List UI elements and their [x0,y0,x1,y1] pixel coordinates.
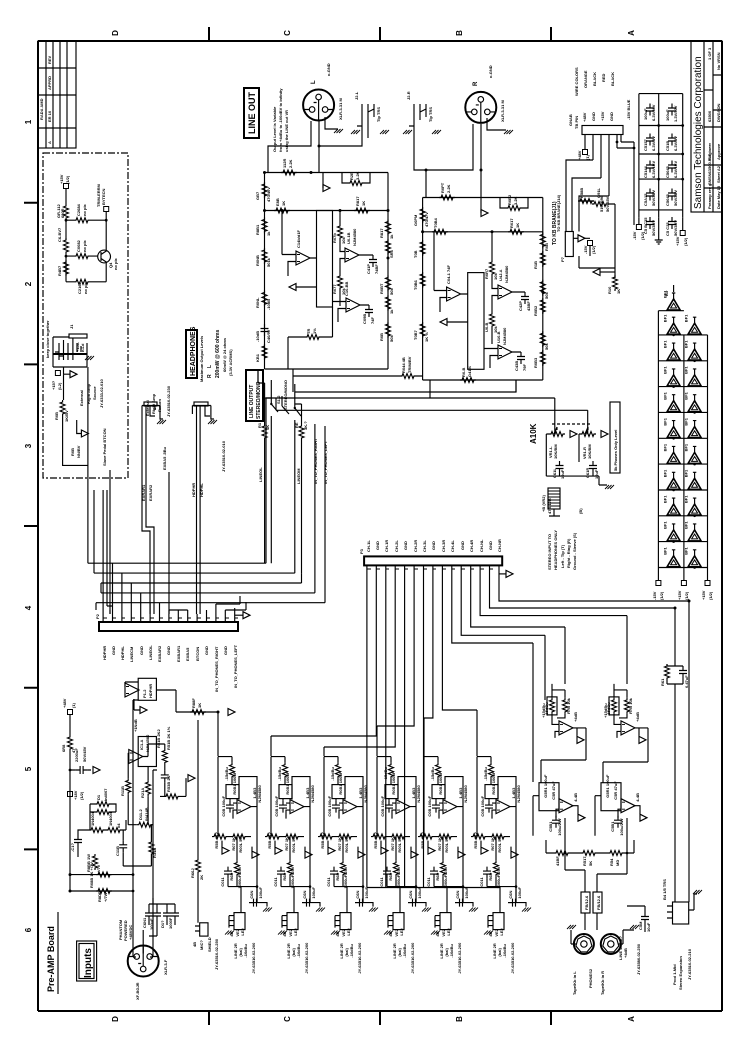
svg-text:2.2K: 2.2K [288,159,293,168]
svg-text:Preamp rev g: Preamp rev g [707,183,712,209]
svg-text:R2B: R2B [349,172,354,180]
svg-text:no pix: no pix [83,281,88,294]
svg-text:6.3V/BV: 6.3V/BV [651,136,656,151]
array bottom terminals [656,581,661,586]
svg-text:R0BT: R0BT [379,283,384,294]
svg-text:T0B: T0B [413,250,418,258]
svg-text:in4007: in4007 [103,788,108,801]
+15V terminal [64,184,69,189]
resistor R0PT 2.2K [439,195,455,200]
svg-text:EXBAR2: EXBAR2 [157,645,162,662]
svg-text:C14b/d1F: C14b/d1F [296,229,301,248]
svg-text:R0-B: R0-B [461,368,466,377]
resistor C2162 [74,279,90,284]
wire [66,254,106,282]
diode D1 in4007 [95,802,111,807]
svg-text:FB/12.6: FB/12.6 [584,895,589,910]
svg-text:-15V BLUE: -15V BLUE [626,99,631,120]
cap C61R [589,461,597,473]
svg-text:R0R7: R0R7 [484,268,489,279]
cap 2200uF [76,766,88,774]
svg-text:no pix: no pix [82,203,87,216]
svg-text:47B/12B: 47B/12B [547,498,552,514]
buffer D9 [684,391,702,412]
resistor R21A [146,780,151,796]
bus to AKM block [292,386,294,392]
jack R [409,104,426,126]
svg-text:+18V: +18V [73,790,78,800]
svg-text:680R: 680R [60,208,65,218]
verticals into P2 from above [88,490,246,614]
svg-text:NN/BV: NN/BV [76,445,81,458]
XLR input connector [128,946,159,977]
svg-text:-15V: -15V [632,231,637,240]
svg-text:C: C [283,1016,292,1022]
cap C1 [74,835,82,847]
XLR wires up [133,700,157,957]
svg-text:R08B 1K +/7V: R08B 1K +/7V [89,862,94,888]
buffer D2 [663,314,681,335]
channel strip CH4 [371,757,431,974]
svg-text:R0B: R0B [544,243,549,251]
svg-text:NJM4580: NJM4580 [352,228,357,246]
resistor T0B4 on rail [432,229,448,234]
array top lead [673,285,675,292]
op-amp U3B [498,285,512,299]
array node dots [672,334,696,569]
svg-text:EXBAR1: EXBAR1 [176,645,181,662]
svg-text:1K/BV: 1K/BV [64,410,69,422]
svg-text:R0PT: R0PT [440,182,445,193]
svg-text:+48V: +48V [582,112,587,122]
svg-text:T0B7: T0B7 [413,329,418,340]
inner feedback rect R [468,273,484,370]
channel strip CH2 [265,757,325,974]
svg-text:-10dB: -10dB [255,331,260,342]
svg-text:D1: D1 [96,794,101,800]
svg-text:+48V: +48V [577,150,582,160]
svg-text:+15V: +15V [677,590,682,600]
svg-text:4B: 4B [192,942,197,947]
svg-text:GND: GND [460,541,465,550]
diode arrow inside [578,235,585,242]
resistor 6R8 47 [68,735,73,751]
svg-text:50V/3BV: 50V/3BV [673,190,678,206]
caps near XLR [145,909,153,921]
wires out of block bottom [258,369,293,386]
svg-text:63500: 63500 [707,110,712,122]
bus wire y 874.6 [70,791,133,875]
cap C43B 79F [517,352,525,364]
resistor col left R8B1 [262,217,267,233]
resistor below-left KB1 [262,344,267,360]
svg-text:STEREO INPUT TO: STEREO INPUT TO [547,534,552,570]
staircase to right blocks [499,573,689,902]
svg-text:Source: Source [92,386,97,400]
svg-text:1000F: 1000F [168,917,173,929]
svg-text:LINE OUTPUT: LINE OUTPUT [249,385,255,418]
svg-text:C51B: C51B [665,141,670,151]
svg-text:+15V: +15V [600,111,605,121]
5k Phones Only Level boxed [610,402,620,473]
svg-text:J2-L: J2-L [354,91,359,100]
tape inter-stage wires [541,728,648,830]
resistor RE 3K [299,424,304,440]
svg-text:100uF: 100uF [643,108,648,120]
svg-text:10uF: 10uF [560,469,565,479]
svg-text:PHONES2: PHONES2 [588,968,593,988]
svg-text:XLR-3-F: XLR-3-F [163,959,168,975]
svg-text:C10-BB: C10-BB [344,281,349,296]
channel strip CH1 [212,757,272,974]
svg-text:1K: 1K [515,223,520,228]
svg-text:ORANGE: ORANGE [583,70,588,88]
arrow down bottom [593,269,600,276]
svg-text:G41%: G41% [467,365,472,377]
svg-text:+/7W: +/7W [103,892,108,902]
dashed enclosure [43,153,128,478]
svg-text:50k: 50k [389,335,394,342]
svg-text:R: R [207,374,213,378]
inner feedback rect [317,211,333,308]
svg-text:TR: TR [306,329,311,334]
svg-text:+48VDC: +48VDC [128,925,133,940]
svg-text:BLACK: BLACK [592,72,597,86]
cap C52 [646,134,654,146]
svg-text:RE: RE [294,422,299,428]
svg-text:C6-BV7: C6-BV7 [57,227,62,242]
HDPH wire pair [197,419,201,614]
tape lower stage R [595,774,647,836]
svg-text:Stereo Expansion: Stereo Expansion [678,956,683,990]
wires down from switch [265,424,325,603]
svg-text:BLACK: BLACK [610,72,615,86]
svg-text:R: R [473,81,479,86]
svg-text:T0B4: T0B4 [433,217,438,228]
junction dots top blocks [69,145,691,893]
svg-text:+15V: +15V [701,590,706,600]
svg-text:R044 4B: R044 4B [401,357,406,373]
svg-text:XLR-3-31 M: XLR-3-31 M [500,100,505,122]
svg-text:1 OF 3: 1 OF 3 [707,47,712,60]
svg-text:G0PM: G0PM [413,214,418,226]
svg-text:112R: 112R [282,159,287,168]
buffer D3 [684,314,702,335]
svg-text:LINECM: LINECM [129,646,134,662]
svg-text:10uF: 10uF [646,922,651,932]
svg-text:keep close together: keep close together [45,320,50,358]
svg-text:P7: P7 [560,256,565,262]
wire [66,189,106,250]
svg-text:74BF: 74BF [374,264,379,274]
title block [691,41,722,212]
bottom rail extension [639,218,683,238]
svg-text:(1/2): (1/2) [65,175,70,184]
svg-text:ER 10: ER 10 [47,110,52,122]
svg-text:R0NL: R0NL [255,297,260,308]
svg-text:2K: 2K [199,875,204,880]
svg-text:SMSN63500.PLT: SMSN63500.PLT [707,153,712,185]
ground at XLR R [504,130,513,134]
svg-text:B1: B1 [664,290,669,296]
resistors right rail column [386,220,391,236]
cap C11B [119,840,127,852]
svg-text:(L2): (L2) [57,382,62,390]
svg-text:1K: 1K [281,201,286,206]
svg-text:C5A15: C5A15 [643,193,648,206]
svg-text:470/40V: 470/40V [266,187,271,202]
svg-text:Ground - Sleeve (S): Ground - Sleeve (S) [572,532,577,570]
headphone drive op-amp block P1-2 [138,678,156,700]
svg-text:SR4: SR4 [389,249,394,258]
svg-text:D: D [111,30,120,36]
svg-text:T0B6: T0B6 [413,279,418,290]
svg-text:R817: R817 [355,196,360,206]
svg-text:1K: 1K [616,289,621,294]
svg-text:+15?: +15? [51,380,56,390]
svg-text:HDPHL: HDPHL [199,483,204,497]
resistor 680R [64,204,69,220]
svg-text:1k: 1k [389,234,394,239]
svg-text:-10dB: -10dB [266,299,271,310]
svg-text:43BF: 43BF [526,301,531,311]
arrow mid [289,284,296,291]
svg-text:(1/2): (1/2) [659,591,664,600]
svg-text:GND: GND [204,646,209,655]
svg-text:+B (VR2): +B (VR2) [541,495,546,512]
arrow mid R [440,319,447,326]
P3 exit arrow [506,570,513,577]
svg-text:CH-NR: CH-NR [497,539,502,552]
svg-text:WIRE COLORS: WIRE COLORS [574,67,579,96]
svg-text:R07b: R07b [332,233,337,243]
AKM ground wiring [546,473,607,485]
buffer D8 [663,391,681,412]
cap left rail [261,324,269,336]
main input op-amp IC1-A [138,737,156,767]
svg-text:IN_TO_PHONES_RIGHT: IN_TO_PHONES_RIGHT [313,438,318,484]
wire XLR R to block [414,124,481,198]
cap C51 [161,770,169,782]
buffer D7 [684,366,702,387]
XLR L connector [303,90,334,121]
svg-text:C5045: C5045 [665,165,670,178]
svg-text:x4: x4 [116,823,121,828]
svg-text:TO KB BRANE(J14): TO KB BRANE(J14) [556,194,561,232]
svg-text:TRIM/BV: TRIM/BV [407,356,412,373]
wires input stage [123,753,153,866]
svg-text:L: L [207,365,213,368]
HDPH jack [192,406,211,420]
svg-text:o-GND: o-GND [488,65,493,78]
svg-text:50k: 50k [544,292,549,299]
svg-text:U10-B: U10-B [496,331,501,343]
resistor GB7 470/40V [262,182,267,198]
ground bus verticals [367,573,424,888]
svg-text:R4B7: R4B7 [57,265,62,276]
svg-text:CH-3R: CH-3R [441,540,446,552]
svg-text:JY-63510-02-010: JY-63510-02-010 [221,440,226,472]
svg-text:R53B 2K: R53B 2K [166,775,171,792]
svg-text:FB/12.6: FB/12.6 [596,895,601,910]
resistor C2684 [74,218,90,223]
svg-text:R61: R61 [660,678,665,686]
svg-text:R88F: R88F [191,698,196,708]
svg-text:JY-6333-02-010: JY-6333-02-010 [99,379,104,408]
svg-text:CH-NL: CH-NL [479,539,484,552]
channel strip CH6 [471,757,531,974]
svg-text:(1): (1) [585,154,590,160]
wires of KB board block [579,201,615,278]
svg-text:BYTECN: BYTECN [101,188,106,205]
svg-text:50V/3BV: 50V/3BV [651,220,656,236]
op-amp U2B [345,248,359,262]
svg-text:HDPHR: HDPHR [148,684,153,698]
op-amp U2A [296,251,310,265]
resistor R0B2 3.2K [506,206,522,211]
resistor 112R 2.2K [281,170,297,175]
svg-text:C2684: C2684 [76,203,81,216]
bank rails [639,94,683,218]
wires descending from jack area [315,424,325,430]
svg-text:R10: R10 [607,286,612,294]
svg-text:APPRD: APPRD [47,76,52,90]
buffer D21 [684,546,702,567]
buffer D13 [684,443,702,464]
svg-text:L: L [311,80,317,84]
+15V terminal [680,231,685,236]
cap C57 [668,189,676,201]
cap C61L [556,461,564,473]
diode D11-2 [137,822,153,827]
P3 body [364,556,502,565]
svg-text:HEADPHONES: HEADPHONES [190,326,197,376]
svg-text:6.3V/1BV: 6.3V/1BV [651,161,656,178]
svg-text:R0B: R0B [70,448,75,456]
svg-text:1K %: 1K % [424,332,429,342]
svg-text:2.2K: 2.2K [446,184,451,193]
resistor left rail R0NB [262,248,267,264]
svg-text:R817: R817 [379,228,384,238]
svg-text:no pix: no pix [82,239,87,252]
svg-text:NJM4580: NJM4580 [502,327,507,345]
transistor Q4 [98,250,111,263]
svg-text:D: D [111,1016,120,1022]
svg-text:+15V: +15V [675,236,680,246]
svg-text:P1-2: P1-2 [142,689,147,698]
svg-text:(1/2): (1/2) [79,791,84,800]
op-amp U3A [447,287,461,301]
svg-text:RADA AMD: RADA AMD [39,98,44,120]
jack L [357,104,374,126]
svg-text:LINEOL: LINEOL [258,467,263,482]
strip feeds from P3 [271,573,477,747]
+18V terminal [69,770,71,791]
svg-text:A: A [627,30,636,36]
svg-text:R017: R017 [509,218,514,228]
buffer D4 [663,340,681,361]
resistor lower left [64,260,69,276]
channel strip CH3 [318,757,378,974]
pot feed wires [546,398,587,476]
arrow on rail [323,185,330,192]
svg-text:MD: MD [615,860,620,866]
svg-text:CH-2L: CH-2L [394,540,399,552]
svg-text:EXRAR2: EXRAR2 [148,484,153,501]
svg-text:50V/3BV: 50V/3BV [673,220,678,236]
svg-text:E8B: E8B [275,198,280,206]
wires out of R block bottom [430,380,516,398]
cap/res top [665,664,670,680]
svg-text:No VRSN: No VRSN [716,52,721,70]
svg-text:Tape/Kb in L: Tape/Kb in L [572,971,577,995]
svg-text:LINE OUT: LINE OUT [247,91,257,134]
svg-text:R0B2: R0B2 [533,305,538,316]
svg-text:10K/BM: 10K/BM [553,444,558,459]
svg-text:IN_TO_PHONES_LEFT: IN_TO_PHONES_LEFT [233,644,238,688]
-15V terminal [636,225,641,230]
cap C50 [646,104,654,116]
resistor R8BB 1/2W [93,854,98,870]
resistor R07b 10k [338,224,343,240]
resistor R0R8 10k [490,312,495,328]
svg-text:A10K: A10K [529,423,538,444]
op-amp U2C [346,298,360,312]
node dots on rails [657,124,684,180]
buffer D10 [663,417,681,438]
P2 feed staircase from left [88,560,266,614]
resistor R58B [578,199,594,204]
svg-text:DWGSON: DWGSON [716,103,721,122]
resistor R1 1K [262,424,267,440]
resistors right rail column R [540,232,545,248]
connector P7 rect [565,232,573,257]
svg-text:STEREO/MONO: STEREO/MONO [283,380,288,410]
ground hatch in box [85,356,94,360]
svg-text:R51B 2K 1%: R51B 2K 1% [166,726,171,750]
tape upper stage R [603,684,646,744]
tape lower stage L [533,774,585,836]
array rails vertical [658,311,707,581]
tape upper stage L [541,684,584,744]
svg-text:n.Ld: n.Ld [80,343,85,352]
svg-text:CH-1L: CH-1L [366,540,371,552]
cap C42P 43BF [521,292,529,304]
resistor R017 on rail [508,229,524,234]
bus from L block to AKM [258,369,265,398]
svg-text:from +4dBu to -100dBV to infin: from +4dBu to -100dBV to infinity [278,88,283,152]
svg-text:200mW @ 600 ohms: 200mW @ 600 ohms [215,330,221,378]
svg-text:501k: 501k [266,257,271,267]
ground at jack L [351,130,360,134]
svg-text:GND: GND [431,541,436,550]
svg-text:1K: 1K [197,703,202,708]
ground at jack R [403,130,412,134]
svg-text:50V/45V: 50V/45V [82,746,87,762]
buffer D14 [663,469,681,490]
resistor R817 [354,208,370,213]
resistor GB7R 470/40V [420,207,425,223]
svg-text:(1/2): (1/2) [683,237,688,246]
svg-text:R0NB: R0NB [255,255,260,266]
svg-text:Maximum Output Levels: Maximum Output Levels [199,335,204,382]
XLR R connector [465,92,496,123]
svg-text:470/47V: 470/47V [424,212,429,227]
svg-text:5K: 5K [588,861,593,866]
boxed label [246,370,263,421]
svg-text:79F: 79F [522,364,527,371]
HEADPHONES boxed label [186,330,197,378]
